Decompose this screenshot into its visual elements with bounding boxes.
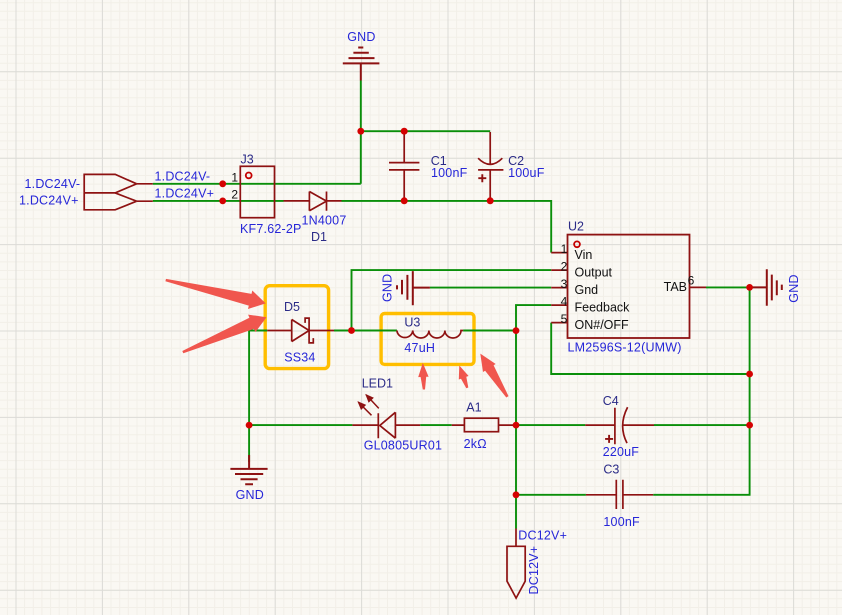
- svg-text:D5: D5: [284, 300, 300, 314]
- svg-text:LM2596S-12(UMW): LM2596S-12(UMW): [568, 340, 682, 354]
- U2 pin stubs: [551, 253, 706, 323]
- svg-text:5: 5: [561, 312, 568, 326]
- junction C3 left: [513, 491, 520, 498]
- junction C4 right: [746, 422, 753, 429]
- svg-text:1.DC24V+: 1.DC24V+: [19, 194, 79, 208]
- svg-text:DC12V+: DC12V+: [527, 546, 541, 595]
- svg-text:Gnd: Gnd: [575, 283, 599, 297]
- inductor U3: [397, 331, 463, 339]
- arrow under U3 mid: [459, 366, 469, 389]
- svg-text:4: 4: [561, 295, 568, 309]
- wire node to inductor: [352, 330, 397, 332]
- wire C4 row left: [516, 424, 585, 426]
- wire D1 to Vin corner: [342, 201, 552, 253]
- LED1 emission arrows: [358, 395, 379, 416]
- svg-text:Vin: Vin: [575, 248, 593, 262]
- wire LED to A1: [420, 424, 452, 426]
- svg-text:1.DC24V+: 1.DC24V+: [155, 187, 215, 201]
- svg-text:1.DC24V-: 1.DC24V-: [155, 170, 211, 184]
- svg-text:U3: U3: [404, 316, 420, 330]
- wire right rail: [749, 287, 751, 425]
- svg-text:LED1: LED1: [362, 377, 393, 391]
- wire D5 cathode to node: [334, 330, 352, 332]
- svg-text:1N4007: 1N4007: [302, 214, 347, 228]
- svg-text:6: 6: [688, 273, 695, 287]
- svg-text:220uF: 220uF: [603, 445, 640, 459]
- svg-text:100nF: 100nF: [431, 166, 468, 180]
- ground bottom-left: [230, 455, 267, 484]
- port flag 1.DC24V-: [84, 174, 136, 193]
- junction gnd rail: [357, 128, 364, 135]
- svg-text:GND: GND: [787, 274, 801, 302]
- highlight box D5: [265, 286, 328, 369]
- wire to DC12V port: [515, 495, 517, 529]
- wire Feedback pin4 drop: [516, 305, 551, 331]
- svg-text:GND: GND: [347, 30, 375, 44]
- svg-text:J3: J3: [241, 152, 254, 166]
- ground top (inverted earth): [343, 48, 380, 81]
- components (dark red): [84, 48, 782, 599]
- wire A1 to node: [513, 424, 516, 426]
- resistor A1: [464, 418, 498, 432]
- svg-text:2: 2: [231, 187, 238, 201]
- diode D5 schottky: [267, 317, 334, 343]
- svg-text:C3: C3: [603, 463, 619, 477]
- svg-text:GND: GND: [381, 274, 395, 302]
- capacitor C3: [586, 480, 653, 509]
- ground mid (left of U2): [397, 271, 430, 305]
- svg-text:GL0805UR01: GL0805UR01: [364, 439, 442, 453]
- svg-text:1.DC24V-: 1.DC24V-: [25, 177, 81, 191]
- wire C3 row left: [516, 494, 586, 496]
- wire TAB to gnd: [706, 286, 750, 288]
- wire top cap rail: [361, 130, 490, 132]
- junction C1 top: [401, 128, 408, 135]
- svg-text:KF7.62-2P: KF7.62-2P: [240, 222, 302, 236]
- svg-text:Output: Output: [575, 266, 613, 280]
- highlight box U3: [381, 314, 474, 365]
- capacitor C2: [478, 132, 503, 201]
- wires (green): [153, 81, 750, 529]
- capacitor C4: [585, 407, 654, 444]
- junction C2 bottom: [487, 197, 494, 204]
- port flag 1.DC24V+: [115, 193, 136, 201]
- svg-text:A1: A1: [466, 400, 481, 414]
- arrow under U3 left: [418, 363, 428, 390]
- port flag DC12V+: [515, 529, 517, 547]
- svg-text:1: 1: [231, 171, 238, 185]
- svg-text:TAB: TAB: [664, 280, 687, 294]
- wire D5 anode corner down: [249, 331, 267, 463]
- arrow at D5 lower: [182, 315, 266, 354]
- junction LED left: [246, 422, 253, 429]
- capacitor C1: [389, 131, 419, 201]
- wire inductor to node2: [463, 330, 516, 332]
- wire Gnd pin3 to gnd symbol: [430, 287, 551, 289]
- junction node U3/feedback: [513, 327, 520, 334]
- wire Output pin2 to D5/U3 node: [352, 270, 552, 330]
- svg-text:U2: U2: [568, 220, 584, 234]
- C2 plus sign: [478, 174, 486, 182]
- junction ON/OFF rail: [746, 371, 753, 378]
- wire net 1.DC24V- row: [153, 183, 361, 185]
- wire C4 row right: [654, 424, 750, 426]
- svg-text:C4: C4: [603, 394, 619, 408]
- junction A1 right: [513, 422, 520, 429]
- C4 plus sign: [605, 435, 613, 443]
- junction node D5/U3: [348, 327, 355, 334]
- IC U2 body: [568, 235, 690, 338]
- svg-text:Feedback: Feedback: [575, 301, 631, 315]
- svg-text:D1: D1: [311, 230, 327, 244]
- connector J3 body: [240, 166, 274, 217]
- junction C1 bottom: [401, 197, 408, 204]
- ground right (TAB): [752, 269, 782, 305]
- arrow at U3 corner big: [480, 354, 508, 398]
- junction J3 pin1: [219, 180, 226, 187]
- svg-text:DC12V+: DC12V+: [518, 529, 567, 543]
- svg-text:SS34: SS34: [284, 350, 315, 364]
- annotation arrows: [165, 279, 508, 398]
- svg-text:100uF: 100uF: [508, 166, 545, 180]
- wire C3 row right corner up: [653, 425, 749, 495]
- wire 1.DC24V+ row to D1: [153, 200, 284, 202]
- diode D1: [284, 192, 342, 211]
- wire vout vertical: [515, 331, 517, 495]
- svg-text:ON#/OFF: ON#/OFF: [575, 318, 630, 332]
- LED LED1: [352, 412, 420, 438]
- junction TAB gnd: [746, 284, 753, 291]
- wire ON#/OFF pin5 loop: [551, 323, 749, 374]
- svg-text:GND: GND: [236, 488, 264, 502]
- svg-text:1: 1: [561, 242, 568, 256]
- svg-text:100nF: 100nF: [603, 515, 640, 529]
- pin-1 ring J3: [246, 173, 252, 179]
- svg-text:3: 3: [561, 277, 568, 291]
- wire GND drop to row A: [360, 81, 362, 184]
- svg-text:2: 2: [561, 260, 568, 274]
- arrow at D5 upper: [165, 279, 265, 309]
- svg-text:47uH: 47uH: [404, 341, 435, 355]
- svg-text:2kΩ: 2kΩ: [464, 437, 487, 451]
- junction J3 pin2: [219, 198, 226, 205]
- pin-1 ring U2: [574, 241, 580, 247]
- wire LED row left: [249, 424, 352, 426]
